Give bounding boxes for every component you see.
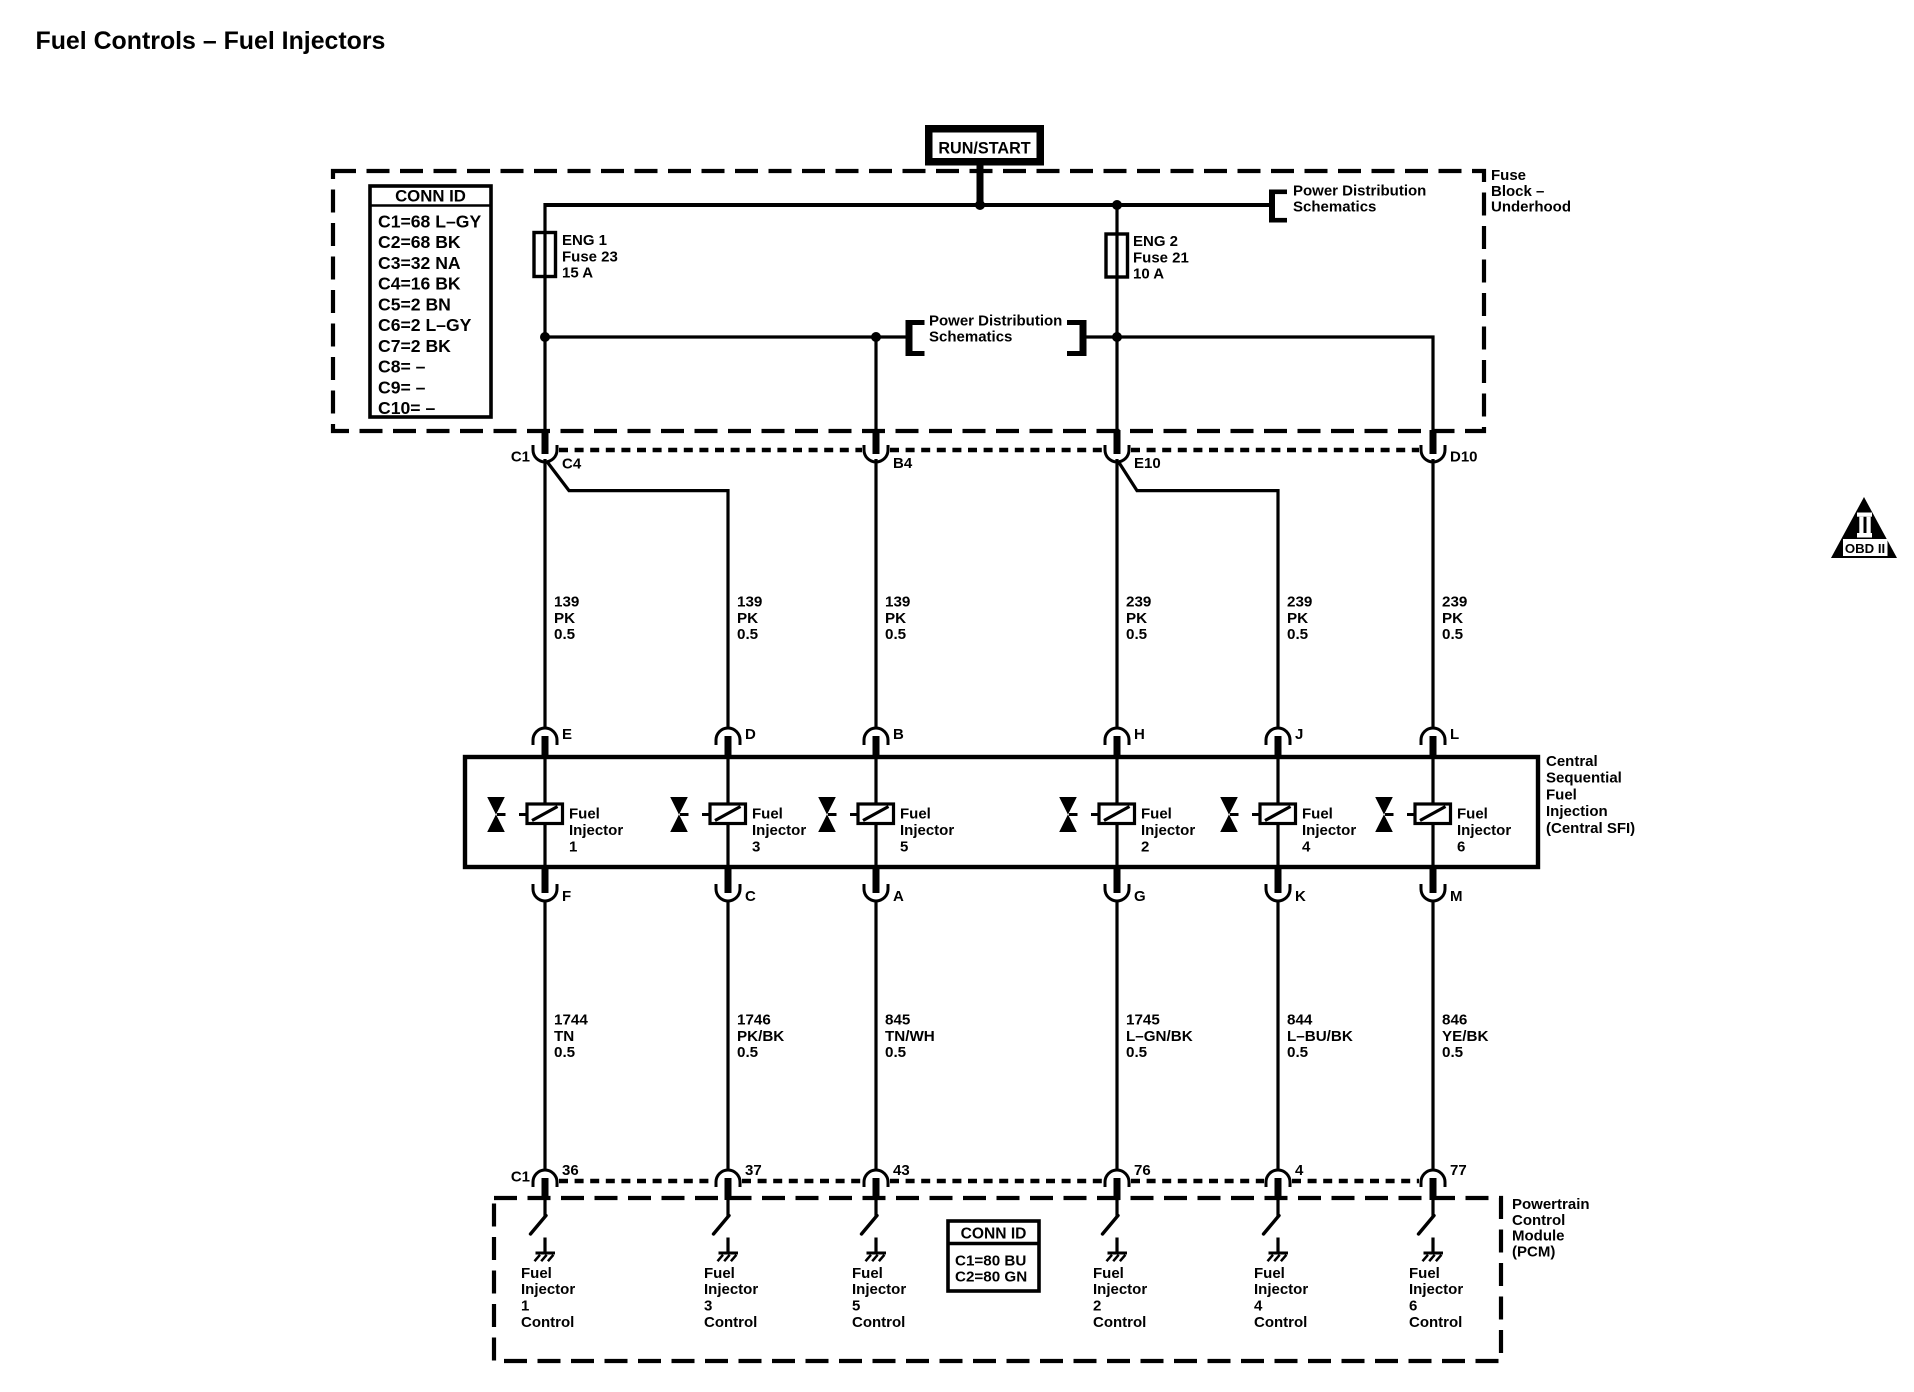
- node: junction B4 branch: [871, 332, 881, 342]
- CONN ID table (Fuse Block): [370, 186, 491, 418]
- svg-text:Fuel: Fuel: [1409, 1265, 1440, 1282]
- svg-text:0.5: 0.5: [885, 626, 907, 643]
- svg-text:Block –: Block –: [1491, 183, 1544, 200]
- CONN ID table (PCM): [948, 1221, 1039, 1291]
- svg-text:Schematics: Schematics: [929, 329, 1012, 346]
- svg-text:0.5: 0.5: [1126, 626, 1148, 643]
- svg-text:Control: Control: [521, 1314, 574, 1331]
- svg-text:YE/BK: YE/BK: [1442, 1028, 1488, 1045]
- svg-text:Fuel: Fuel: [704, 1265, 735, 1282]
- svg-text:B4: B4: [893, 455, 913, 472]
- connector pin A (SFI bottom): [864, 865, 904, 905]
- svg-text:Injector: Injector: [1457, 822, 1511, 839]
- svg-text:C1=80 BU: C1=80 BU: [955, 1253, 1026, 1270]
- node: junction ENG2 feed on bus: [1112, 200, 1122, 210]
- svg-text:C5=2 BN: C5=2 BN: [378, 294, 451, 314]
- svg-text:Fuel: Fuel: [521, 1265, 552, 1282]
- node: junction RUN/START on bus: [975, 200, 985, 210]
- svg-text:139: 139: [885, 594, 910, 611]
- svg-text:D: D: [745, 726, 756, 743]
- svg-text:C2=68 BK: C2=68 BK: [378, 232, 461, 252]
- svg-text:5: 5: [900, 839, 908, 856]
- wire label circuit 846 YE/BK: [1442, 1012, 1488, 1062]
- connector pin M (SFI bottom): [1421, 865, 1463, 905]
- svg-text:A: A: [893, 888, 904, 905]
- svg-text:Fuel: Fuel: [752, 806, 783, 823]
- wire: injector 4 feed branch from E10: [1118, 461, 1278, 728]
- fuel injector 2 (coil + valve): [1060, 757, 1195, 867]
- svg-text:M: M: [1450, 888, 1463, 905]
- svg-text:C4: C4: [562, 456, 582, 473]
- fuel injector 1 (coil + valve): [488, 757, 623, 867]
- label D10: [1450, 449, 1478, 466]
- wire: fused feed bus right segment (y=337) to D10: [1082, 337, 1433, 450]
- svg-text:0.5: 0.5: [737, 1044, 759, 1061]
- svg-text:0.5: 0.5: [1126, 1044, 1148, 1061]
- svg-text:Injector: Injector: [569, 822, 623, 839]
- connector pin C (SFI bottom): [716, 865, 756, 905]
- svg-text:RUN/START: RUN/START: [938, 140, 1030, 158]
- svg-text:Injector: Injector: [752, 822, 806, 839]
- label: Powertrain Control Module (PCM): [1512, 1196, 1590, 1260]
- svg-text:76: 76: [1134, 1162, 1151, 1179]
- svg-text:2: 2: [1093, 1298, 1101, 1315]
- connector E10: [1105, 430, 1129, 462]
- fuel injector 4 (coil + valve): [1221, 757, 1356, 867]
- wire label circuit 1745 L–GN/BK: [1126, 1012, 1193, 1062]
- svg-text:TN: TN: [554, 1028, 574, 1045]
- svg-text:J: J: [1295, 726, 1303, 743]
- svg-text:C2=80 GN: C2=80 GN: [955, 1269, 1027, 1286]
- svg-text:0.5: 0.5: [1442, 1044, 1464, 1061]
- label C4: [562, 456, 582, 473]
- wire: injector 1 feed (x=545): [543, 459, 546, 728]
- connector pin H (SFI top): [1105, 726, 1145, 759]
- off-page reference bracket left: Power Distribution Schematics (mid): [906, 320, 925, 356]
- svg-text:845: 845: [885, 1012, 911, 1029]
- connector pin E (SFI top): [533, 726, 572, 759]
- driver switch + ground, fuel injector 6 control: [1409, 1200, 1463, 1331]
- svg-text:1: 1: [521, 1298, 529, 1315]
- label C1 (fuse block connector): [511, 449, 530, 466]
- svg-text:C9= –: C9= –: [378, 377, 426, 397]
- fuse ENG 1 / Fuse 23 / 15 A: [534, 232, 618, 282]
- svg-text:E10: E10: [1134, 455, 1161, 472]
- svg-text:PK: PK: [554, 610, 575, 627]
- svg-text:F: F: [562, 888, 571, 905]
- svg-text:Injector: Injector: [900, 822, 954, 839]
- svg-text:Injector: Injector: [521, 1281, 575, 1298]
- svg-text:Fuse 21: Fuse 21: [1133, 249, 1189, 266]
- driver switch + ground, fuel injector 5 control: [852, 1200, 906, 1331]
- connector pin 76 (PCM): [1105, 1162, 1151, 1200]
- svg-text:1745: 1745: [1126, 1012, 1160, 1029]
- svg-text:Fuel: Fuel: [900, 806, 931, 823]
- svg-text:OBD II: OBD II: [1845, 541, 1885, 556]
- svg-text:Injector: Injector: [1302, 822, 1356, 839]
- svg-text:Control: Control: [704, 1314, 757, 1331]
- wire label circuit 139 PK: [554, 594, 579, 644]
- connector pin G (SFI bottom): [1105, 865, 1146, 905]
- svg-text:Fuse 23: Fuse 23: [562, 248, 618, 265]
- svg-text:CONN ID: CONN ID: [961, 1226, 1027, 1243]
- svg-text:36: 36: [562, 1162, 579, 1179]
- svg-text:Fuse: Fuse: [1491, 167, 1526, 184]
- svg-text:C1: C1: [511, 449, 530, 466]
- svg-text:ENG 1: ENG 1: [562, 232, 607, 249]
- svg-text:0.5: 0.5: [1287, 626, 1309, 643]
- svg-text:C3=32 NA: C3=32 NA: [378, 253, 461, 273]
- svg-text:D10: D10: [1450, 449, 1478, 466]
- svg-text:846: 846: [1442, 1012, 1467, 1029]
- driver switch + ground, fuel injector 2 control: [1093, 1200, 1147, 1331]
- svg-text:C1: C1: [511, 1169, 530, 1186]
- fuel injector 6 (coil + valve): [1376, 757, 1511, 867]
- wire label circuit 139 PK: [885, 594, 910, 644]
- wire: fused feed bus left segment (y=337): [545, 335, 906, 338]
- svg-text:3: 3: [752, 839, 760, 856]
- svg-text:Fuel: Fuel: [1302, 806, 1333, 823]
- label: Power Distribution Schematics (upper): [1293, 183, 1426, 216]
- svg-text:Fuel: Fuel: [1093, 1265, 1124, 1282]
- label B4: [893, 455, 913, 472]
- wire: injector 3 control (x=728): [726, 900, 729, 1171]
- svg-text:TN/WH: TN/WH: [885, 1028, 935, 1045]
- connector pin L (SFI top): [1421, 726, 1459, 759]
- svg-text:Injection: Injection: [1546, 803, 1608, 820]
- svg-text:Fuel: Fuel: [1254, 1265, 1285, 1282]
- wire label circuit 845 TN/WH: [885, 1012, 935, 1062]
- wire label circuit 239 PK: [1442, 594, 1467, 644]
- wire: injector 6 control (x=1433): [1431, 900, 1434, 1171]
- svg-text:0.5: 0.5: [737, 626, 759, 643]
- wire: feed bus from RUN/START (y=205): [545, 203, 1271, 207]
- fuel injector 5 (coil + valve): [819, 757, 954, 867]
- wire: ENG2 fuse wire (x=1117): [1115, 205, 1118, 450]
- connector pin 37 (PCM): [716, 1162, 762, 1200]
- svg-text:C10= –: C10= –: [378, 398, 435, 418]
- fuel injector 3 (coil + valve): [671, 757, 806, 867]
- connector pin 36 (PCM): [533, 1162, 579, 1200]
- svg-text:CONN ID: CONN ID: [395, 187, 466, 206]
- svg-text:Power Distribution: Power Distribution: [1293, 183, 1426, 200]
- label E10: [1134, 455, 1161, 472]
- svg-text:C8= –: C8= –: [378, 357, 426, 377]
- svg-text:6: 6: [1457, 839, 1465, 856]
- svg-text:Module: Module: [1512, 1228, 1565, 1245]
- svg-text:PK: PK: [737, 610, 758, 627]
- driver switch + ground, fuel injector 4 control: [1254, 1200, 1308, 1331]
- connector pin F (SFI bottom): [533, 865, 571, 905]
- connector pin 77 (PCM): [1421, 1162, 1467, 1200]
- svg-text:Injector: Injector: [704, 1281, 758, 1298]
- label C1 (PCM connector): [511, 1169, 530, 1186]
- fuse ENG 2 / Fuse 21 / 10 A: [1106, 233, 1189, 283]
- svg-text:Schematics: Schematics: [1293, 199, 1376, 216]
- wire: injector 5 feed (x=876): [874, 459, 877, 728]
- svg-text:PK/BK: PK/BK: [737, 1028, 784, 1045]
- connector in-line dotted row C1 (PCM): [559, 1179, 1419, 1184]
- svg-text:1746: 1746: [737, 1012, 771, 1029]
- wire label circuit 139 PK: [737, 594, 762, 644]
- svg-text:2: 2: [1141, 839, 1149, 856]
- svg-text:PK: PK: [1126, 610, 1147, 627]
- svg-text:43: 43: [893, 1162, 910, 1179]
- label: Power Distribution Schematics (mid): [929, 313, 1062, 346]
- svg-text:Control: Control: [1093, 1314, 1146, 1331]
- off-page reference bracket right (mid): [1067, 320, 1087, 356]
- svg-text:Powertrain: Powertrain: [1512, 1196, 1590, 1213]
- svg-text:Central: Central: [1546, 753, 1598, 770]
- svg-text:Fuel: Fuel: [1457, 806, 1488, 823]
- svg-text:1744: 1744: [554, 1012, 588, 1029]
- svg-text:L–GN/BK: L–GN/BK: [1126, 1028, 1193, 1045]
- svg-text:Fuel: Fuel: [1141, 806, 1172, 823]
- svg-text:E: E: [562, 726, 572, 743]
- svg-text:B: B: [893, 726, 904, 743]
- connector B4: [864, 430, 888, 462]
- connector D10: [1421, 430, 1445, 462]
- label: Fuse Block - Underhood: [1491, 167, 1571, 216]
- title: Fuel Controls - Fuel Injectors: [36, 27, 386, 55]
- svg-text:Control: Control: [1409, 1314, 1462, 1331]
- svg-text:L: L: [1450, 726, 1459, 743]
- connector pin B (SFI top): [864, 726, 904, 759]
- svg-text:ENG 2: ENG 2: [1133, 233, 1178, 250]
- svg-text:Underhood: Underhood: [1491, 199, 1571, 216]
- wire label circuit 239 PK: [1126, 594, 1151, 644]
- svg-text:Control: Control: [1512, 1212, 1565, 1229]
- Fuse Block - Underhood dashed boundary: [333, 171, 1484, 431]
- svg-text:H: H: [1134, 726, 1145, 743]
- wire label circuit 239 PK: [1287, 594, 1312, 644]
- svg-text:Injector: Injector: [1254, 1281, 1308, 1298]
- wire: injector 5 control (x=876): [874, 900, 877, 1171]
- wire label circuit 844 L–BU/BK: [1287, 1012, 1353, 1062]
- svg-text:Fuel: Fuel: [1546, 786, 1577, 803]
- switch feed RUN/START: [925, 125, 1044, 166]
- svg-text:(PCM): (PCM): [1512, 1243, 1555, 1260]
- wire: injector 1 control (x=545): [543, 900, 546, 1171]
- svg-text:C1=68 L–GY: C1=68 L–GY: [378, 211, 481, 231]
- svg-text:Power Distribution: Power Distribution: [929, 313, 1062, 330]
- svg-text:L–BU/BK: L–BU/BK: [1287, 1028, 1353, 1045]
- svg-text:Fuel Controls – Fuel Injectors: Fuel Controls – Fuel Injectors: [36, 27, 386, 55]
- svg-text:239: 239: [1442, 594, 1467, 611]
- wire: injector 3 feed branch from C4: [547, 461, 729, 728]
- svg-text:239: 239: [1287, 594, 1312, 611]
- svg-text:0.5: 0.5: [1287, 1044, 1309, 1061]
- svg-text:K: K: [1295, 888, 1306, 905]
- wire: injector 6 feed (x=1433): [1431, 459, 1434, 728]
- svg-text:3: 3: [704, 1298, 712, 1315]
- svg-text:Fuel: Fuel: [569, 806, 600, 823]
- node: junction ENG2 wire on bus2: [1112, 332, 1122, 342]
- node: junction on ENG1 wire: [540, 332, 550, 342]
- svg-text:4: 4: [1302, 839, 1311, 856]
- svg-text:Fuel: Fuel: [852, 1265, 883, 1282]
- connector pin 43 (PCM): [864, 1162, 910, 1200]
- svg-text:C4=16 BK: C4=16 BK: [378, 274, 461, 294]
- label: Central Sequential Fuel Injection (Central SFI): [1546, 753, 1635, 837]
- svg-text:1: 1: [569, 839, 577, 856]
- driver switch + ground, fuel injector 1 control: [521, 1200, 575, 1331]
- svg-text:Control: Control: [852, 1314, 905, 1331]
- svg-text:37: 37: [745, 1162, 762, 1179]
- connector pin J (SFI top): [1266, 726, 1303, 759]
- svg-text:0.5: 0.5: [1442, 626, 1464, 643]
- svg-text:Injector: Injector: [852, 1281, 906, 1298]
- svg-text:0.5: 0.5: [554, 626, 576, 643]
- svg-text:77: 77: [1450, 1162, 1467, 1179]
- svg-text:10 A: 10 A: [1133, 266, 1164, 283]
- wire label circuit 1744 TN: [554, 1012, 588, 1062]
- svg-text:4: 4: [1295, 1162, 1304, 1179]
- driver switch + ground, fuel injector 3 control: [704, 1200, 758, 1331]
- svg-text:5: 5: [852, 1298, 860, 1315]
- svg-text:15 A: 15 A: [562, 265, 593, 282]
- svg-text:Injector: Injector: [1141, 822, 1195, 839]
- svg-text:Injector: Injector: [1093, 1281, 1147, 1298]
- svg-text:6: 6: [1409, 1298, 1417, 1315]
- connector pin K (SFI bottom): [1266, 865, 1306, 905]
- connector in-line dotted row C1 (fuse block): [559, 448, 1419, 453]
- Central SFI component box: [465, 757, 1538, 867]
- svg-text:Control: Control: [1254, 1314, 1307, 1331]
- wire: injector 2 control (x=1117): [1115, 900, 1118, 1171]
- OBD II marker triangle: [1831, 497, 1897, 558]
- wire: B4 branch (x=876): [874, 337, 877, 450]
- svg-text:844: 844: [1287, 1012, 1313, 1029]
- svg-text:C6=2 L–GY: C6=2 L–GY: [378, 315, 472, 335]
- off-page reference bracket: Power Distribution Schematics (upper): [1269, 190, 1287, 223]
- svg-text:0.5: 0.5: [885, 1044, 907, 1061]
- svg-text:PK: PK: [885, 610, 906, 627]
- svg-text:239: 239: [1126, 594, 1151, 611]
- svg-text:C: C: [745, 888, 756, 905]
- svg-text:C7=2 BK: C7=2 BK: [378, 336, 451, 356]
- wire: injector 4 control (x=1278): [1276, 900, 1279, 1171]
- svg-text:139: 139: [554, 594, 579, 611]
- svg-text:(Central SFI): (Central SFI): [1546, 820, 1635, 837]
- svg-text:4: 4: [1254, 1298, 1263, 1315]
- svg-text:Sequential: Sequential: [1546, 770, 1622, 787]
- connector pin 4 (PCM): [1266, 1162, 1304, 1200]
- svg-text:G: G: [1134, 888, 1146, 905]
- svg-text:PK: PK: [1287, 610, 1308, 627]
- Powertrain Control Module dashed boundary: [494, 1198, 1501, 1361]
- connector pin D (SFI top): [716, 726, 756, 759]
- wire: RUN/START stub: [977, 163, 984, 205]
- connector C1/C4 on ENG1 wire: [533, 430, 557, 462]
- svg-text:Injector: Injector: [1409, 1281, 1463, 1298]
- svg-text:139: 139: [737, 594, 762, 611]
- wire label circuit 1746 PK/BK: [737, 1012, 784, 1062]
- svg-text:PK: PK: [1442, 610, 1463, 627]
- svg-text:0.5: 0.5: [554, 1044, 576, 1061]
- wire: injector 2 feed (x=1117): [1115, 459, 1118, 728]
- wire: ENG1 fuse wire (x=545): [543, 203, 546, 450]
